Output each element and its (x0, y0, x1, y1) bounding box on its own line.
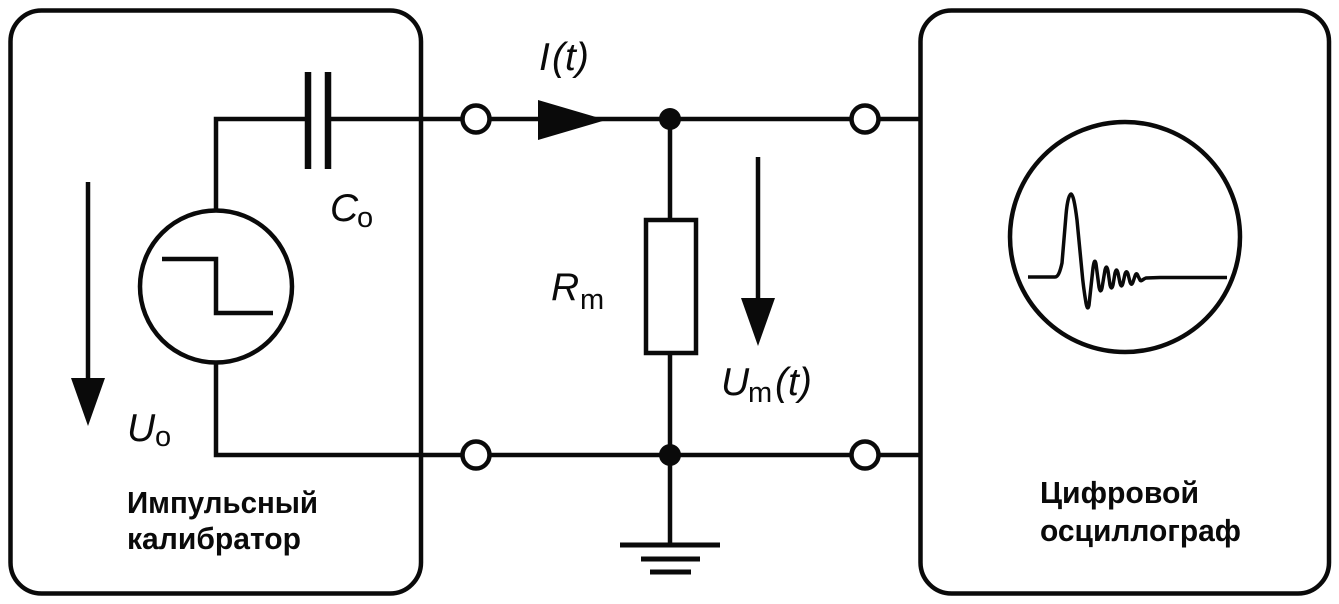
terminal: bottom right open circle (852, 442, 879, 469)
terminal: top right open circle (852, 106, 879, 133)
terminal: top left open circle (463, 106, 490, 133)
svg-text:C: C (330, 187, 359, 230)
ground: bottom bar (650, 570, 691, 575)
wire: top wire from capacitor across boxes to oscilloscope (331, 117, 921, 122)
svg-text:(t): (t) (552, 36, 589, 79)
arrow: U0 voltage direction arrow (86, 182, 91, 385)
wire: bottom wire from source to oscilloscope (216, 361, 921, 455)
resistor Rm body (646, 220, 696, 353)
node: top junction dot (659, 108, 681, 130)
arrow: I(t) current direction arrowhead (538, 100, 606, 140)
svg-text:o: o (357, 202, 373, 234)
oscilloscope screen circle (1010, 122, 1240, 352)
node: bottom junction dot (659, 444, 681, 466)
svg-text:I: I (539, 36, 550, 79)
svg-text:m: m (580, 284, 604, 316)
svg-text:U: U (127, 407, 156, 450)
terminal: bottom left open circle (463, 442, 490, 469)
capacitor C0 right plate (325, 72, 332, 169)
svg-text:U: U (721, 361, 750, 404)
box: pulse calibrator enclosure (11, 11, 422, 594)
svg-text:(t): (t) (775, 361, 812, 404)
oscilloscope screen pulse waveform (1028, 194, 1227, 308)
svg-text:R: R (551, 266, 579, 309)
svg-text:m: m (748, 377, 772, 409)
ground: lead from bottom junction (668, 455, 673, 545)
svg-text:Импульсный: Импульсный (127, 485, 318, 520)
wire: resistor bottom lead (668, 353, 673, 455)
svg-text:осциллограф: осциллограф (1040, 513, 1241, 548)
source V1 step waveform symbol (162, 259, 273, 313)
capacitor C0 left plate (305, 72, 312, 169)
ground: top bar (620, 543, 720, 548)
arrow: Um(t) voltage direction arrow (756, 157, 761, 305)
svg-text:o: o (155, 421, 171, 453)
wire: resistor top lead (668, 119, 673, 222)
source V1: step generator circle (140, 211, 292, 363)
svg-text:калибратор: калибратор (127, 521, 301, 556)
ground: middle bar (641, 557, 700, 562)
wire: top wire from source to capacitor (216, 119, 306, 212)
svg-text:Цифровой: Цифровой (1040, 475, 1199, 510)
box: digital oscilloscope enclosure (921, 11, 1330, 594)
